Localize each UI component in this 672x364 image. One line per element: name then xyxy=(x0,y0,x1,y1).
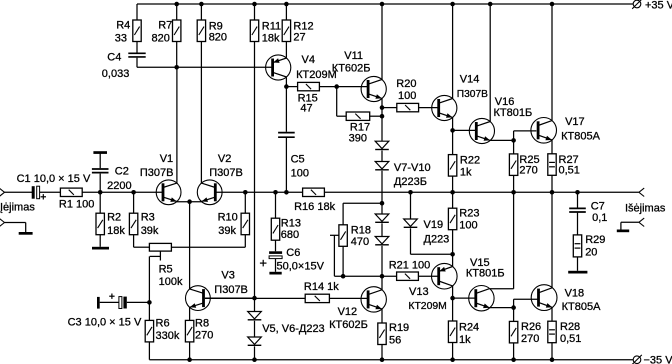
svg-text:V18: V18 xyxy=(565,287,585,299)
svg-text:R4: R4 xyxy=(116,20,130,32)
transistor V15 xyxy=(469,286,494,311)
svg-text:V3: V3 xyxy=(221,270,234,282)
wire V11 collector to rail xyxy=(381,4,383,80)
transistor V1 xyxy=(156,180,181,205)
wire V2 base line xyxy=(245,191,302,193)
resistor R28 xyxy=(548,321,556,343)
resistor R14 xyxy=(205,297,305,299)
svg-text:18k: 18k xyxy=(107,225,125,237)
resistor R19 xyxy=(378,323,386,345)
wire down to R17 xyxy=(336,87,338,117)
node emitters xyxy=(187,199,192,204)
svg-text:390: 390 xyxy=(349,132,367,144)
node R10 xyxy=(243,190,248,195)
wire R12 to V4 emitter xyxy=(285,42,287,58)
resistor R2 xyxy=(99,192,101,213)
power rail +35V xyxy=(137,3,633,5)
resistor R25 xyxy=(513,140,515,154)
wire jog to V18 base xyxy=(513,299,515,307)
svg-text:R2: R2 xyxy=(107,212,121,224)
wire to V3 collector xyxy=(189,202,191,290)
svg-text:Д223Б: Д223Б xyxy=(394,176,427,188)
node R3 xyxy=(131,190,136,195)
svg-text:680: 680 xyxy=(281,229,299,241)
resistor R15 xyxy=(286,86,297,88)
svg-text:1k: 1k xyxy=(459,334,471,346)
svg-text:C5: C5 xyxy=(291,154,305,166)
terminal +35V xyxy=(633,0,641,8)
transistor V12 xyxy=(361,287,386,312)
input ground terminal xyxy=(0,218,5,222)
transistor V2 xyxy=(197,180,222,205)
wire V16 emitter xyxy=(490,139,513,141)
wire V13 emitter xyxy=(452,254,454,266)
svg-text:R22: R22 xyxy=(460,154,480,166)
resistor R18 trimmer xyxy=(339,225,347,247)
node R15-R17 xyxy=(334,84,339,89)
wire V3 base xyxy=(205,297,255,299)
wire R17 to V11 emitter node xyxy=(370,115,382,117)
node V17 base R25 xyxy=(511,138,516,143)
svg-text:V17: V17 xyxy=(565,116,585,128)
svg-text:V5, V6-Д223: V5, V6-Д223 xyxy=(262,323,325,335)
svg-text:R26: R26 xyxy=(521,321,541,333)
svg-text:−35 V: −35 V xyxy=(644,355,672,364)
svg-text:R23: R23 xyxy=(459,207,479,219)
svg-text:27: 27 xyxy=(293,32,305,44)
R5 wiper xyxy=(159,251,161,260)
diode V10 xyxy=(375,237,389,244)
ground xyxy=(92,247,109,250)
svg-text:R10: R10 xyxy=(218,212,238,224)
svg-text:R6: R6 xyxy=(156,318,170,330)
resistor R3 xyxy=(133,192,135,213)
svg-text:П307В: П307В xyxy=(214,284,248,296)
wire xyxy=(40,191,61,193)
node chain-R18 xyxy=(380,201,385,206)
wire xyxy=(82,191,163,193)
svg-text:56: 56 xyxy=(389,335,401,347)
capacitor C3 xyxy=(97,297,100,309)
ground xyxy=(19,232,33,235)
resistor R26 xyxy=(513,308,515,322)
resistor R27 xyxy=(548,154,556,176)
wire V15 collector to output xyxy=(490,288,514,290)
svg-text:R21 100: R21 100 xyxy=(389,259,431,271)
svg-text:R1 100: R1 100 xyxy=(59,199,94,211)
wire V3 emitter to R8 xyxy=(189,307,191,321)
resistor R13 xyxy=(275,192,277,218)
resistor R20 xyxy=(382,107,397,109)
wire R3 to R5 xyxy=(134,246,150,248)
resistor R16 xyxy=(303,188,325,196)
node V4-R15-C5 xyxy=(284,84,289,89)
wire V11 emitter xyxy=(381,98,383,141)
wire xyxy=(136,42,138,54)
resistor R8 xyxy=(185,320,193,342)
transistor V4 xyxy=(266,55,291,80)
transistor V16 xyxy=(469,118,494,143)
transistor V17 xyxy=(531,118,557,144)
svg-text:Įėjimas: Įėjimas xyxy=(0,202,35,214)
diode V19 xyxy=(408,190,413,195)
terminal -35V xyxy=(633,356,641,364)
svg-text:C7: C7 xyxy=(591,201,605,213)
diode V6 xyxy=(248,337,262,344)
node V13-V15-R24 xyxy=(450,296,455,301)
wire R11 to V3 base node xyxy=(254,42,256,299)
svg-text:0,033: 0,033 xyxy=(102,68,130,80)
svg-text:R18: R18 xyxy=(351,225,371,237)
svg-text:R16 18k: R16 18k xyxy=(294,201,335,213)
svg-text:R29: R29 xyxy=(585,234,605,246)
node V15e-R26-V18b xyxy=(511,305,516,310)
wire V1 collector xyxy=(176,67,178,183)
svg-text:V7-V10: V7-V10 xyxy=(394,162,431,174)
wire V18 emitter to R28 xyxy=(551,307,553,321)
capacitor C2 xyxy=(99,174,101,193)
svg-text:R28: R28 xyxy=(560,321,580,333)
wire V16 collector to rail xyxy=(489,4,491,122)
resistor R1 xyxy=(60,188,82,196)
resistor R29 xyxy=(573,235,581,257)
svg-text:КТ602Б: КТ602Б xyxy=(332,63,371,75)
transistor V11 xyxy=(361,76,386,101)
svg-text:КТ801Б: КТ801Б xyxy=(466,268,505,280)
svg-text:V12: V12 xyxy=(338,306,358,318)
wire V13 collector xyxy=(452,286,454,298)
resistor R17 xyxy=(346,112,370,120)
wire to V16 base xyxy=(453,129,476,131)
svg-text:820: 820 xyxy=(152,33,170,45)
transistor V18 xyxy=(531,285,557,311)
svg-text:П307В: П307В xyxy=(140,167,174,179)
ground xyxy=(269,272,281,275)
wire V17 collector to rail xyxy=(551,4,553,121)
wire V18 collector to output xyxy=(551,192,553,288)
svg-text:20: 20 xyxy=(585,247,597,259)
wire emitters xyxy=(177,201,202,203)
svg-text:100k: 100k xyxy=(159,276,183,288)
node bias-V13 emitter xyxy=(450,252,455,257)
resistor R9 xyxy=(199,2,204,7)
svg-text:R20: R20 xyxy=(396,78,416,90)
wire V4 collector xyxy=(285,77,287,86)
wire V14 collector to rail xyxy=(452,4,454,99)
resistor R23 xyxy=(452,192,454,208)
transistor V14 xyxy=(432,95,457,120)
node R20 xyxy=(380,105,385,110)
svg-text:V1: V1 xyxy=(160,153,173,165)
svg-text:Išėjimas: Išėjimas xyxy=(625,203,666,215)
wire xyxy=(5,191,33,193)
node C3-R5-R6 xyxy=(147,300,152,305)
svg-text:C2: C2 xyxy=(115,166,129,178)
node R13 xyxy=(273,190,278,195)
wire V14 emitter to R22 xyxy=(452,117,454,154)
svg-text:270: 270 xyxy=(519,164,537,176)
output line xyxy=(324,191,639,193)
svg-text:100: 100 xyxy=(398,90,416,102)
svg-text:КТ801Б: КТ801Б xyxy=(494,107,533,119)
node V12 collector xyxy=(380,274,385,279)
wire V12 collector xyxy=(381,276,383,290)
svg-text:R19: R19 xyxy=(389,322,409,334)
svg-text:R5: R5 xyxy=(159,264,173,276)
svg-text:V19: V19 xyxy=(424,219,444,231)
svg-text:V11: V11 xyxy=(344,50,363,62)
diode V5 xyxy=(248,312,262,319)
wire R9 to V2 collector xyxy=(200,42,202,184)
svg-text:2200: 2200 xyxy=(107,180,131,192)
output terminal xyxy=(639,188,644,192)
wire to V15 base xyxy=(453,297,476,299)
capacitor C5 xyxy=(285,87,287,132)
output ground terminal xyxy=(639,218,644,222)
svg-text:КТ209М: КТ209М xyxy=(408,301,446,312)
svg-text:V14: V14 xyxy=(460,74,480,86)
input terminal xyxy=(0,188,5,192)
resistor R5 trimmer xyxy=(149,243,171,251)
svg-text:КТ602Б: КТ602Б xyxy=(329,319,368,331)
resistor R22 xyxy=(448,155,456,177)
wire R18 top xyxy=(343,202,382,204)
node R1-C2-R2 xyxy=(98,190,103,195)
wire V12 emitter to R19 xyxy=(381,309,383,323)
R18 wiper xyxy=(330,234,339,236)
wire R10 to R5 xyxy=(244,235,246,248)
svg-text:КТ805А: КТ805А xyxy=(562,301,601,313)
wire V15 emitter xyxy=(490,307,514,309)
resistor R24 xyxy=(452,298,454,321)
ground xyxy=(568,271,587,274)
resistor R6 xyxy=(148,302,150,320)
svg-text:+35 V: +35 V xyxy=(645,0,672,11)
node V3 base diodes xyxy=(252,296,257,301)
resistor R10 xyxy=(244,192,246,213)
svg-text:R24: R24 xyxy=(459,322,479,334)
resistor R11 xyxy=(252,2,257,7)
node C5 xyxy=(284,190,289,195)
svg-text:V13: V13 xyxy=(409,286,429,298)
svg-text:R13: R13 xyxy=(281,217,301,229)
svg-text:100: 100 xyxy=(459,220,477,232)
wire V17 emitter to R27 xyxy=(551,140,553,154)
svg-text:0,51: 0,51 xyxy=(560,333,581,345)
wire V2 base to R10 xyxy=(215,191,246,193)
wire R18 bottom line xyxy=(334,275,396,277)
svg-text:C1 10,0 × 15 V: C1 10,0 × 15 V xyxy=(17,173,91,185)
svg-text:Д223: Д223 xyxy=(424,234,450,246)
svg-text:R8: R8 xyxy=(195,318,209,330)
svg-text:КТ209М: КТ209М xyxy=(296,69,337,81)
transistor V3 xyxy=(186,286,211,311)
capacitor C1 xyxy=(32,186,35,199)
svg-text:1k: 1k xyxy=(460,167,472,179)
wire jog to V17 base xyxy=(513,131,515,141)
resistor R4 xyxy=(133,20,141,42)
wire R15 to V11 base xyxy=(337,86,368,88)
node R17-diodes xyxy=(380,114,385,119)
svg-text:330k: 330k xyxy=(156,330,180,342)
svg-text:39k: 39k xyxy=(218,225,236,237)
transistor V13 xyxy=(432,263,458,289)
svg-text:C3 10,0 × 15 V: C3 10,0 × 15 V xyxy=(68,316,142,328)
power rail -35V xyxy=(149,359,633,361)
svg-text:270: 270 xyxy=(195,329,213,341)
svg-text:33: 33 xyxy=(115,33,127,45)
node V16 base xyxy=(450,128,455,133)
output nodes xyxy=(511,190,516,195)
svg-text:R14 1k: R14 1k xyxy=(304,281,339,293)
diode V9 xyxy=(375,214,389,221)
svg-text:П307В: П307В xyxy=(457,89,488,100)
svg-text:470: 470 xyxy=(351,236,369,248)
svg-text:R7: R7 xyxy=(158,20,172,32)
resistor R21 xyxy=(397,272,419,280)
svg-text:100: 100 xyxy=(291,168,309,180)
svg-text:0,1: 0,1 xyxy=(592,212,607,224)
capacitor C6 xyxy=(275,240,277,251)
svg-text:47: 47 xyxy=(300,103,312,115)
svg-text:V4: V4 xyxy=(302,54,315,66)
capacitor C7 xyxy=(577,192,579,207)
node R7-V1-V4base xyxy=(174,65,179,70)
svg-text:П307В: П307В xyxy=(209,167,243,179)
svg-text:R3: R3 xyxy=(141,212,155,224)
capacitor C4 xyxy=(128,52,145,54)
diode V7 xyxy=(375,141,389,148)
resistor R7 xyxy=(174,2,179,7)
resistor R12 xyxy=(284,2,289,7)
svg-text:C6: C6 xyxy=(286,247,300,259)
svg-text:820: 820 xyxy=(209,32,227,44)
diode V8 xyxy=(375,162,389,169)
svg-text:50,0×15V: 50,0×15V xyxy=(277,260,325,272)
ground xyxy=(617,230,629,233)
svg-text:270: 270 xyxy=(521,333,539,345)
svg-text:КТ805А: КТ805А xyxy=(561,130,600,142)
svg-text:0,51: 0,51 xyxy=(559,164,580,176)
node R22-R23 xyxy=(450,190,455,195)
wire C4 to V4 base xyxy=(136,58,138,68)
svg-text:18k: 18k xyxy=(262,32,280,44)
svg-text:C4: C4 xyxy=(107,51,121,63)
svg-text:R11: R11 xyxy=(262,20,281,32)
svg-text:39k: 39k xyxy=(141,225,159,237)
svg-text:V2: V2 xyxy=(218,153,231,165)
wire xyxy=(136,4,138,20)
